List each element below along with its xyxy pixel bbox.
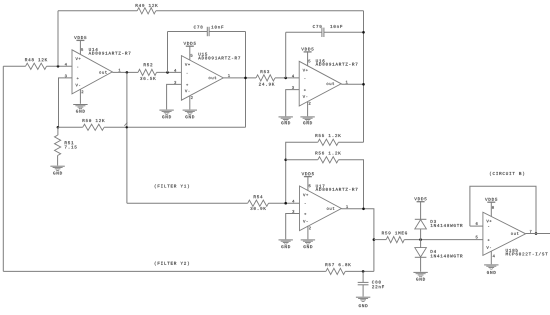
wire: U15 pin2 to ground: [189, 96, 191, 110]
wire: U18 output to edge: [526, 233, 550, 235]
wire: U14 pin2 to ground: [79, 89, 81, 103]
wire: U16 +in to ground: [286, 90, 300, 117]
label 10nF C79: [330, 25, 342, 28]
pin 3 U14: [65, 75, 67, 78]
label R51: [65, 141, 74, 144]
label AD8091ARTZ-R7 U17: [316, 188, 358, 191]
ground U15 pin2: [183, 110, 197, 114]
resistor R48: [26, 63, 47, 69]
wire: R54 to U17 -in: [269, 202, 300, 204]
resistor R50: [83, 124, 104, 130]
node: U14 output junction: [126, 71, 129, 74]
label MCP6022T-I/ST: [506, 252, 548, 255]
node: U16 -in junction: [284, 77, 287, 80]
label 36.5K: [140, 77, 156, 80]
label 7.15: [65, 146, 77, 149]
label plus U15: [186, 84, 188, 86]
label VDD5 U15: [184, 42, 196, 45]
op-amp U14: [72, 50, 112, 94]
pin 1 U17: [346, 205, 348, 208]
label plus U18: [488, 239, 490, 241]
node: R50/R51 junction: [57, 126, 60, 129]
node: U15 output junction: [244, 77, 247, 80]
pin 1 U14: [119, 69, 121, 72]
node: U17 -in junction: [284, 202, 287, 205]
ground U18: [484, 265, 498, 269]
label plus U16: [304, 89, 306, 91]
wire: D3 cathode to VDD5: [420, 202, 422, 220]
wire: D4 cathode to ground: [420, 257, 422, 271]
label GND U18: [487, 271, 496, 274]
node: diode clamp junction: [419, 238, 422, 241]
node: U14 -in junction: [57, 65, 60, 68]
label out U18: [511, 232, 519, 235]
wire: C78 left vertical: [167, 32, 169, 73]
wire: junction up to feedback net: [57, 11, 59, 67]
node: C79 to feedback net: [362, 31, 365, 34]
label R56 1.2K: [315, 152, 340, 155]
wire: C79 top right: [324, 31, 364, 33]
wire: feedback net right vertical (to U16 output): [363, 11, 365, 143]
label 1N4148WGTR D4: [431, 255, 463, 258]
label GND C80: [359, 304, 368, 307]
label V- U16: [303, 95, 308, 98]
label V+ U17: [303, 194, 308, 197]
wire: D4 anode lead: [420, 240, 422, 248]
wire: C79 top left: [286, 31, 322, 33]
wire: R59 to diode junction and U18 +in: [404, 239, 483, 241]
pin 6 U18: [476, 222, 478, 225]
label R48 12K: [25, 58, 47, 61]
wire: C78 top left: [168, 31, 208, 33]
pin 8 U18: [492, 206, 494, 209]
label out U17: [327, 207, 335, 210]
wire: R56 right lead down to U17 output: [338, 160, 363, 209]
label out U14: [99, 71, 107, 74]
label R57 6.8K: [325, 263, 350, 266]
node: U18 output junction: [535, 232, 538, 235]
pin 4 U14: [65, 63, 67, 66]
power VDD5 U16: [304, 52, 312, 66]
label U17: [316, 185, 325, 188]
label 10nF C78: [211, 26, 223, 29]
pin 5 U18: [476, 236, 478, 239]
pin 5 U14: [81, 48, 83, 51]
pin 2 U14: [82, 90, 84, 93]
label C78: [194, 26, 203, 29]
label C79: [313, 25, 322, 28]
power VDD5 U17: [304, 177, 312, 191]
wire: R55 left lead and vertical to U17 -in: [286, 142, 318, 203]
wire: R53 to U16 -in: [275, 77, 299, 79]
label (FILTER Y2): [155, 262, 189, 266]
pin 4 U17: [292, 200, 294, 203]
label V- U15: [185, 90, 190, 93]
wire: input net left vertical (bottom feedback to R48): [2, 66, 4, 271]
pin 2 U15: [191, 96, 193, 99]
node: C80 junction: [362, 270, 365, 273]
wire: U16 pin2 to ground: [307, 102, 309, 117]
label 30.9K: [250, 207, 266, 210]
label V+ U15: [185, 63, 190, 66]
label V+ U16: [303, 69, 308, 72]
wire: C78 top right: [209, 31, 245, 33]
node: R56/U17 output junction: [362, 208, 365, 211]
wire: R59 left lead: [374, 239, 386, 241]
pin 4 U16: [292, 75, 294, 78]
label R49 12K: [136, 4, 158, 7]
node: R56 tap junction: [284, 159, 287, 162]
label (CIRCUIT B): [490, 172, 524, 176]
resistor R49: [137, 8, 156, 14]
label GND U17 +in: [281, 245, 290, 248]
pin 5 U17: [309, 185, 311, 188]
ground U15 +in: [159, 110, 173, 114]
pin 5 U16: [308, 60, 310, 63]
label R53: [261, 70, 270, 73]
pin 4 U15: [174, 69, 176, 72]
label minus U14: [77, 66, 78, 68]
label GND U15 +in: [162, 115, 171, 118]
label 1N4148WGTR D3: [431, 224, 463, 227]
wire: U17 +in to ground: [286, 214, 300, 240]
wire: U14 +in: [59, 78, 73, 127]
label GND U17 pin2: [304, 245, 313, 248]
wire: C80 top lead: [362, 271, 364, 282]
wire: R51 to ground: [57, 156, 59, 166]
resistor R55: [318, 139, 339, 145]
power VDD5 U15: [186, 46, 194, 60]
ground U17 pin2: [301, 240, 315, 244]
label GND D4: [416, 278, 425, 281]
power VDD5 U14: [76, 40, 84, 54]
wire: C78 right vertical to output net: [245, 32, 247, 128]
wire: U18 -in: [470, 225, 483, 227]
label C80: [372, 281, 381, 284]
label GND U15 pin2: [185, 115, 194, 118]
label VDD5 D3: [414, 197, 426, 200]
pin 7 U18: [530, 230, 532, 233]
label R50 12K: [83, 119, 105, 122]
label AD8091ARTZ-R7 U14: [89, 52, 131, 55]
ground U16 +in: [279, 117, 293, 121]
label 24.9K: [259, 83, 275, 86]
wire: U18 pin4 to ground: [490, 251, 492, 264]
ground U16 pin2: [300, 117, 314, 121]
label VDD5 U17: [302, 172, 314, 175]
label R54: [254, 195, 263, 198]
op-amp U17: [300, 186, 342, 231]
label VDD5 U14: [74, 36, 86, 39]
diode D3: [415, 219, 427, 229]
label minus U18: [488, 225, 489, 227]
wire: top feedback net left of R49: [58, 10, 137, 12]
ground U14: [73, 105, 87, 109]
label U15: [199, 53, 208, 56]
pin 1 U16: [346, 81, 348, 84]
label plus U14: [77, 77, 79, 79]
wire: R48 to U14 inverting input: [47, 65, 73, 67]
node: R59 tap junction: [373, 238, 376, 241]
pin 2 U17: [309, 227, 311, 230]
node: U15 -in junction: [166, 71, 169, 74]
label D3: [431, 220, 436, 223]
capacitor C78: [207, 27, 209, 36]
label GND U16 pin2: [303, 121, 312, 124]
label out U15: [209, 76, 217, 79]
wire: C80 bottom lead: [362, 285, 364, 297]
label R55 1.2K: [315, 134, 340, 137]
label D4: [431, 250, 436, 253]
label U16: [316, 59, 325, 62]
label U18b: [506, 249, 518, 252]
power VDD5 U18: [487, 202, 495, 216]
resistor R56: [318, 157, 339, 163]
label V- U17: [303, 220, 308, 223]
pin 5 U15: [191, 54, 193, 57]
wire: U17 pin2 to ground: [307, 226, 309, 239]
wire: U15 output: [223, 77, 256, 79]
wire: R52 to U15 -in: [157, 71, 182, 73]
op-amp U16: [299, 61, 341, 106]
node: U16 output junction: [362, 83, 365, 86]
label VDD5 U16: [301, 48, 313, 51]
wire: U14 output: [112, 71, 138, 73]
wire: C79 left vertical: [285, 32, 287, 78]
label V+ U18: [486, 220, 491, 223]
ground C80: [356, 297, 370, 301]
label GND R51: [53, 172, 62, 175]
wire: FILTER Y2 net: [3, 270, 326, 272]
label V- U18: [486, 246, 491, 249]
label minus U16: [304, 78, 305, 80]
label GND U16 +in: [281, 121, 290, 124]
label out U16: [327, 82, 335, 85]
wire: U17 output: [341, 209, 374, 272]
pin 1 U15: [228, 74, 230, 77]
label R59 1MEG: [382, 232, 407, 235]
label plus U17: [304, 213, 306, 215]
wire: FILTER Y1 net: [127, 202, 248, 204]
resistor R52: [138, 69, 157, 75]
op-amp U15: [181, 56, 223, 101]
resistor R57: [326, 268, 345, 274]
ground U17 +in: [279, 240, 293, 244]
label R52: [144, 63, 153, 66]
label 22nF: [372, 285, 384, 288]
label minus U17: [305, 202, 306, 204]
label (FILTER Y1): [155, 184, 189, 188]
capacitor C80: [358, 282, 369, 284]
ground D4: [413, 272, 427, 276]
pin 3 U15: [174, 81, 176, 84]
wire: U14 output down to FILTER Y1 (with hop): [124, 72, 128, 203]
pin 3 U17: [292, 210, 294, 213]
label U14: [89, 48, 98, 51]
label V+ U14: [76, 57, 81, 60]
wire: U18 feedback loop: [470, 186, 536, 233]
wire: U15 +in to ground: [167, 84, 182, 109]
wire: top feedback net right of R49: [156, 10, 364, 12]
label VDD5 U18: [485, 198, 497, 201]
wire: input to R48: [3, 65, 25, 67]
wire: R57 to C80 junction: [345, 270, 374, 272]
pin 4 U18: [493, 255, 495, 258]
diode D4: [415, 248, 427, 258]
label minus U15: [187, 72, 188, 74]
label V- U14: [76, 84, 81, 87]
label AD8091ARTZ-R7 U15: [198, 57, 240, 60]
label GND U14: [76, 110, 85, 113]
wire: R51 top lead: [57, 127, 59, 135]
label AD8091ARTZ-R7 U16: [316, 63, 358, 66]
wire: D3 anode lead: [420, 229, 422, 240]
pin 3 U16: [292, 86, 294, 89]
wire: R56 left lead: [286, 159, 318, 161]
wire: R50 to U15 output net: [104, 126, 245, 128]
capacitor C79: [322, 28, 324, 37]
wire: R55 right lead: [338, 141, 363, 143]
ground R51: [50, 166, 64, 170]
wire: R50 left lead: [58, 126, 83, 128]
wire: U16 output: [341, 83, 363, 85]
resistor R54: [248, 200, 269, 206]
resistor R53: [256, 75, 275, 81]
resistor R51: [55, 135, 61, 155]
pin 2 U16: [309, 102, 311, 105]
resistor R59: [386, 237, 404, 243]
op-amp U18: [483, 212, 526, 255]
power VDD5 D3: [417, 201, 425, 203]
